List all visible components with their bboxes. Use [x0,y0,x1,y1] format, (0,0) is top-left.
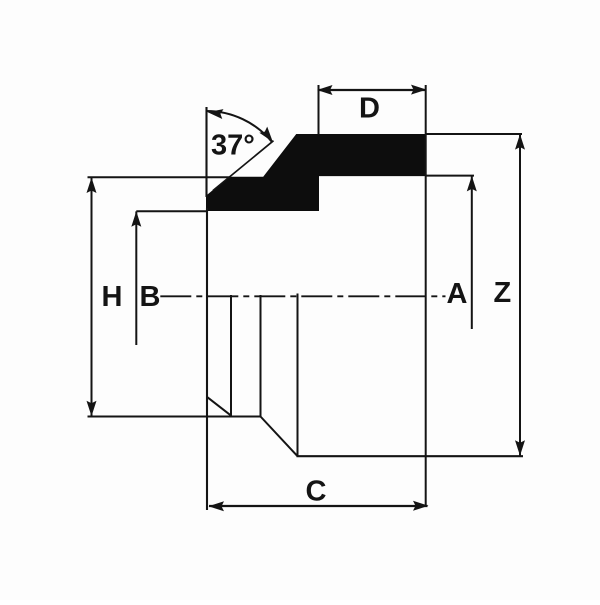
lower nose chamfer line [208,397,232,416]
A top connector line [426,175,474,177]
lower cone edge line at x=231 [230,295,232,416]
lower cone edge line at x=260.5 [260,295,262,417]
right face / D-C common extension line [425,85,427,507]
A arrow up [467,176,477,192]
Z arrow up [515,134,525,150]
Z dimension line [519,134,521,455]
svg-text:D: D [359,93,380,125]
svg-text:37°: 37° [211,130,255,162]
arc arrow (right, at 37-degree ray) [259,127,276,145]
H top connector line [88,176,232,178]
C dimension line [209,505,428,507]
lower shoulder cone line [261,417,298,457]
Z top connector line [426,133,522,135]
arc arrow (left, at vertical line) [207,107,224,119]
lower body edge line at x=297 [297,294,299,457]
svg-text:C: C [306,476,327,508]
svg-text:H: H [102,281,123,313]
D arrow left [317,85,333,95]
D dimension line [319,89,426,91]
svg-text:B: B [140,281,161,313]
angle vertex vertical reference line [205,107,207,197]
svg-text:Z: Z [494,277,512,309]
B dimension line [135,211,137,345]
Z arrow down [515,440,525,456]
B top connector line [136,210,207,212]
body bottom line and Z bottom connector [297,455,524,457]
centerline (dash-dot axis) [160,295,445,297]
C arrow right [413,501,429,511]
B arrow up [131,211,141,227]
H dimension line [91,178,93,417]
37-degree thin reference ray [213,141,274,191]
body left face line (continues down as C extension line) [206,208,208,510]
fitting nose section (black filled) [207,135,426,211]
svg-text:A: A [447,278,468,310]
C arrow left [209,501,225,511]
H bottom connector / hex bottom line [88,416,262,418]
A dimension line [471,176,473,329]
angle dimension arc [207,111,273,142]
D arrow right [411,85,427,95]
H arrow up [87,178,97,194]
D dimension extension line (left) [318,85,320,135]
H arrow down [87,401,97,417]
